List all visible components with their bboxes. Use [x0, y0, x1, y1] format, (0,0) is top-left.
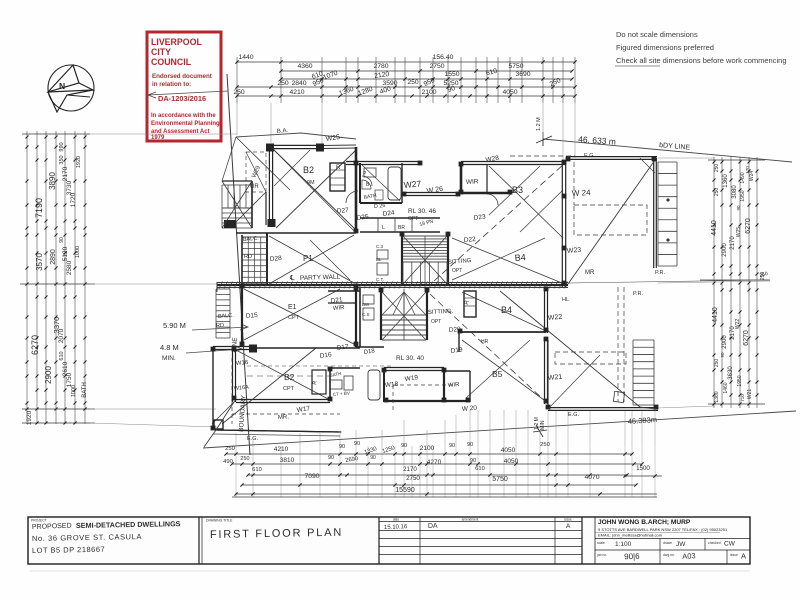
- svg-text:W24: W24: [749, 171, 755, 182]
- svg-text:1979: 1979: [151, 135, 165, 141]
- svg-text:D22: D22: [464, 236, 477, 244]
- svg-text:1460: 1460: [723, 382, 729, 393]
- svg-text:2100: 2100: [420, 445, 435, 452]
- svg-text:issue: issue: [564, 518, 572, 522]
- hip corner lower right: [640, 407, 655, 409]
- svg-text:4070: 4070: [584, 474, 599, 481]
- svg-text:250: 250: [277, 80, 289, 87]
- room B2 diagonals: [274, 150, 356, 230]
- svg-text:No. 36 GROVE ST. CASULA: No. 36 GROVE ST. CASULA: [32, 532, 142, 543]
- svg-text:FIRST FLOOR PLAN: FIRST FLOOR PLAN: [210, 527, 343, 541]
- bath fixtures upper: [364, 168, 376, 177]
- svg-text:P.R.: P.R.: [655, 270, 665, 276]
- leader arrow to boundary: [148, 91, 228, 98]
- svg-text:90: 90: [470, 458, 476, 464]
- wall balcony west upper: [241, 235, 243, 285]
- svg-text:W22: W22: [548, 314, 563, 322]
- svg-text:checked: checked: [708, 541, 721, 545]
- svg-text:1000: 1000: [75, 246, 81, 258]
- svg-text:1.2 M: 1.2 M: [536, 117, 542, 131]
- svg-text:B4: B4: [514, 252, 526, 263]
- svg-text:2070: 2070: [58, 328, 65, 343]
- svg-text:4050: 4050: [504, 458, 519, 465]
- svg-text:250: 250: [540, 442, 550, 448]
- wall D19 stub lower: [458, 332, 460, 352]
- upper deck walls: [566, 156, 657, 158]
- svg-text:JOHN WONG B.ARCH; MURP: JOHN WONG B.ARCH; MURP: [598, 519, 691, 526]
- lower deck left outline: [212, 348, 214, 430]
- wall lower B2 west: [232, 348, 234, 402]
- svg-text:in relation to:: in relation to:: [152, 81, 191, 88]
- upper dwelling long hip diagonal: [271, 147, 356, 233]
- hip corner lower left: [204, 430, 216, 447]
- svg-text:2840: 2840: [291, 80, 306, 87]
- svg-text:MIN.: MIN.: [162, 355, 176, 362]
- svg-text:3690: 3690: [515, 71, 530, 78]
- mid hall walls upper: [360, 217, 440, 219]
- WIR upper walls: [460, 165, 463, 194]
- top dimension block: [235, 57, 576, 160]
- svg-text:EMAIL: john_mellissa@hotmail.: EMAIL: john_mellissa@hotmail.com: [598, 533, 663, 538]
- svg-text:1950: 1950: [740, 190, 746, 201]
- sheet shadow line: [30, 570, 750, 572]
- svg-text:90: 90: [354, 441, 360, 447]
- svg-text:RL 30. 40: RL 30. 40: [396, 355, 424, 362]
- svg-text:MR.: MR.: [278, 414, 290, 421]
- svg-text:RD: RD: [244, 254, 252, 260]
- party wall line extension right: [568, 280, 770, 283]
- svg-text:90: 90: [736, 205, 741, 211]
- door arc upper bath: [362, 176, 372, 186]
- svg-text:CW: CW: [724, 541, 736, 548]
- svg-text:BATH: BATH: [82, 382, 88, 398]
- left dimension numbers: [26, 142, 88, 425]
- svg-text:710: 710: [740, 394, 745, 402]
- ensuite lower: [383, 369, 385, 402]
- svg-text:WIR: WIR: [448, 382, 461, 389]
- svg-text:15590: 15590: [395, 487, 415, 494]
- wall E1 south: [256, 347, 360, 349]
- svg-text:issue: issue: [730, 553, 738, 557]
- svg-text:B4: B4: [501, 305, 512, 315]
- upper bath fixtures near stairs: [377, 250, 388, 259]
- wall B4 south lower: [460, 331, 546, 333]
- svg-text:1440: 1440: [238, 54, 253, 61]
- svg-text:C.S: C.S: [362, 312, 370, 317]
- wall B2 north: [266, 144, 324, 146]
- window wall W19: [384, 367, 444, 369]
- svg-text:2750: 2750: [406, 475, 420, 482]
- north arrow compass: [48, 65, 94, 112]
- svg-text:Environmental Planning: Environmental Planning: [151, 121, 220, 127]
- upper stairs: [402, 233, 448, 285]
- door arc D23: [487, 194, 498, 205]
- upper deck diagonal: [568, 160, 655, 284]
- svg-text:LIVERPOOL: LIVERPOOL: [151, 37, 202, 47]
- svg-text:2890: 2890: [50, 249, 57, 265]
- svg-text:LOT B5 DP 218667: LOT B5 DP 218667: [32, 545, 105, 555]
- svg-text:D28: D28: [270, 255, 283, 263]
- bottom boundary line: [203, 411, 796, 448]
- wc upper: [375, 190, 383, 200]
- wall B3 east: [561, 160, 563, 287]
- svg-text:B5: B5: [492, 369, 503, 379]
- svg-text:BR: BR: [398, 225, 405, 231]
- robe and bath lower right of B2: [312, 370, 326, 394]
- left side boundary line: [227, 74, 250, 455]
- svg-text:250: 250: [714, 164, 720, 173]
- svg-text:7190: 7190: [34, 198, 44, 218]
- svg-text:90|6: 90|6: [624, 552, 640, 562]
- svg-text:B2: B2: [303, 165, 314, 175]
- svg-text:4360: 4360: [297, 63, 312, 70]
- svg-text:C.3: C.3: [376, 244, 384, 249]
- svg-text:PROJECT: PROJECT: [31, 519, 47, 523]
- svg-text:1:100: 1:100: [615, 541, 632, 548]
- wall B2 east: [355, 147, 358, 232]
- bottom dimension block: [224, 410, 662, 497]
- svg-text:CITY: CITY: [151, 47, 171, 57]
- right dimension block: [658, 157, 770, 408]
- svg-text:5750: 5750: [508, 63, 523, 70]
- svg-text:1360: 1360: [723, 174, 729, 188]
- svg-text:W22: W22: [735, 319, 741, 330]
- svg-text:6270: 6270: [743, 330, 750, 346]
- svg-text:W21: W21: [747, 389, 753, 400]
- room B3 diagonals: [489, 166, 563, 238]
- svg-text:90: 90: [401, 443, 407, 449]
- window W25: [324, 144, 356, 147]
- svg-text:4050: 4050: [502, 89, 517, 96]
- svg-text:SEMI-DETACHED DWELLINGS: SEMI-DETACHED DWELLINGS: [76, 519, 181, 530]
- svg-text:amendment: amendment: [462, 518, 479, 522]
- svg-text:DRAWING TITLE: DRAWING TITLE: [206, 519, 233, 523]
- svg-text:Check all site dimensions befo: Check all site dimensions before work co…: [616, 56, 787, 65]
- svg-text:3890: 3890: [48, 172, 57, 190]
- svg-text:E.G.: E.G.: [247, 436, 258, 442]
- svg-text:9 STOTTS AVE BARDWELL PARK NSW: 9 STOTTS AVE BARDWELL PARK NSW 2207 TEL/…: [598, 527, 728, 532]
- svg-text:90: 90: [59, 237, 65, 243]
- robe R upper: [330, 163, 345, 191]
- svg-text:BW: BW: [362, 302, 370, 307]
- fixtures lower bath: [330, 380, 342, 389]
- svg-text:RD: RD: [216, 323, 224, 329]
- upper entry porch steps: [222, 184, 252, 186]
- title block architect box: [595, 517, 750, 564]
- svg-text:7090: 7090: [304, 473, 319, 480]
- svg-text:W23: W23: [567, 247, 582, 255]
- svg-text:6270: 6270: [745, 218, 752, 234]
- svg-text:A: A: [741, 552, 746, 561]
- svg-text:W27: W27: [403, 178, 422, 190]
- wall B5 east: [544, 338, 546, 404]
- north wall over B3: [461, 161, 565, 163]
- svg-text:B3: B3: [512, 185, 523, 195]
- svg-text:2750: 2750: [429, 63, 444, 70]
- lower stairs: [381, 289, 427, 340]
- svg-text:E.G.: E.G.: [568, 412, 579, 418]
- left dimension block: [20, 131, 237, 427]
- svg-text:1550: 1550: [444, 71, 459, 78]
- svg-text:4210: 4210: [274, 446, 289, 453]
- svg-text:P.R.: P.R.: [633, 291, 643, 297]
- svg-text:4050: 4050: [501, 447, 516, 454]
- svg-text:date: date: [393, 518, 399, 522]
- svg-text:MR: MR: [585, 270, 595, 276]
- svg-text:drawn: drawn: [663, 541, 672, 545]
- svg-text:D 26: D 26: [374, 203, 386, 210]
- wall B2 south: [236, 232, 356, 234]
- svg-text:2900: 2900: [722, 335, 728, 349]
- boundary tick: [536, 132, 552, 146]
- wall P1 west: [266, 233, 268, 285]
- svg-text:PARTY WALL: PARTY WALL: [300, 274, 341, 282]
- svg-text:610: 610: [475, 466, 485, 472]
- svg-text:4410: 4410: [712, 307, 719, 323]
- bath tub upper: [388, 167, 401, 200]
- bottom dimension numbers: [223, 441, 650, 494]
- svg-text:RL 30. 46: RL 30. 46: [408, 208, 436, 215]
- underline mark: [615, 65, 660, 67]
- svg-text:JW: JW: [676, 541, 686, 548]
- svg-text:350: 350: [59, 155, 65, 164]
- svg-text:4270: 4270: [427, 459, 442, 466]
- svg-text:1720: 1720: [70, 192, 77, 207]
- svg-text:W 20: W 20: [462, 405, 478, 413]
- svg-text:2580: 2580: [66, 260, 73, 275]
- lower balcony ladder: [215, 289, 217, 338]
- svg-text:1920: 1920: [26, 410, 33, 425]
- title block frame: [28, 517, 750, 564]
- svg-text:490: 490: [223, 459, 233, 465]
- svg-text:B.A.: B.A.: [277, 128, 289, 135]
- svg-text:job no.: job no.: [596, 553, 607, 557]
- svg-text:4410: 4410: [711, 220, 718, 236]
- svg-text:2900: 2900: [722, 243, 728, 257]
- lower deck right side: [500, 291, 658, 410]
- ensuite fixtures lower left: [363, 295, 374, 304]
- svg-text:COUNCIL: COUNCIL: [151, 57, 192, 67]
- svg-text:OPT: OPT: [452, 268, 462, 274]
- diagonal across sitting B4 upper: [452, 238, 562, 283]
- svg-text:W25: W25: [736, 227, 742, 238]
- svg-text:3080: 3080: [732, 185, 738, 199]
- diagonal lower deck second: [548, 355, 600, 409]
- svg-text:90: 90: [467, 442, 473, 448]
- lower B2 diagonals: [236, 350, 330, 400]
- long dashed diagonal lower dwelling: [430, 294, 546, 402]
- svg-text:MIN: MIN: [540, 420, 546, 430]
- door arc D27: [346, 191, 358, 203]
- svg-text:DA-1203/2016: DA-1203/2016: [158, 94, 206, 103]
- svg-text:dwg no.: dwg no.: [663, 553, 675, 557]
- svg-text:250: 250: [240, 456, 249, 462]
- top boundary line bdy: [543, 139, 792, 162]
- svg-text:3590: 3590: [382, 80, 397, 87]
- svg-text:5750: 5750: [492, 476, 508, 483]
- svg-text:90: 90: [339, 444, 345, 450]
- svg-text:W 24: W 24: [572, 188, 592, 198]
- svg-text:1500: 1500: [636, 465, 650, 472]
- dashed setout lower mid: [392, 385, 394, 413]
- right dimension numbers: [711, 164, 766, 403]
- title block project box: [31, 519, 181, 555]
- svg-text:E1: E1: [288, 304, 297, 311]
- svg-text:WIR: WIR: [466, 178, 479, 186]
- wall B2 west: [268, 147, 270, 227]
- svg-text:90: 90: [449, 443, 455, 449]
- svg-text:W16: W16: [236, 360, 249, 367]
- svg-text:5120: 5120: [62, 246, 69, 261]
- svg-text:OPT: OPT: [431, 319, 441, 325]
- svg-text:156.40: 156.40: [433, 54, 454, 61]
- svg-text:6270: 6270: [30, 335, 40, 355]
- Liverpool City Council endorsement stamp: [147, 32, 221, 141]
- svg-text:D15: D15: [246, 312, 259, 320]
- svg-text:1360: 1360: [714, 391, 720, 402]
- svg-text:Do not scale dimensions: Do not scale dimensions: [616, 30, 698, 39]
- svg-text:610: 610: [252, 467, 262, 473]
- svg-text:4.8 M: 4.8 M: [160, 343, 179, 352]
- svg-text:250: 250: [407, 79, 419, 86]
- svg-text:4210: 4210: [289, 89, 304, 96]
- eave line lower: [213, 434, 340, 436]
- title block drawing title box: [206, 519, 343, 541]
- svg-text:90: 90: [370, 455, 376, 461]
- robe R lower: [464, 291, 476, 317]
- svg-text:250: 250: [714, 359, 720, 368]
- svg-text:2100: 2100: [421, 89, 436, 96]
- svg-text:1950: 1950: [737, 375, 743, 386]
- svg-text:WIR: WIR: [333, 305, 346, 312]
- svg-text:990: 990: [59, 142, 65, 151]
- svg-text:Endorsed document: Endorsed document: [152, 73, 212, 80]
- svg-text:CPT: CPT: [283, 386, 295, 392]
- svg-text:D27: D27: [337, 207, 350, 215]
- svg-text:A03: A03: [682, 551, 696, 561]
- svg-text:2170: 2170: [403, 466, 417, 473]
- svg-text:2900: 2900: [44, 366, 53, 384]
- diagonal bath upper: [362, 165, 400, 201]
- svg-text:3630: 3630: [728, 366, 734, 380]
- wall lower south mid: [388, 400, 470, 402]
- svg-text:scale: scale: [597, 541, 605, 545]
- robe walls lower near party wall: [328, 290, 360, 292]
- svg-text:In accordance with the: In accordance with the: [151, 113, 216, 119]
- wall E1 east: [355, 288, 357, 347]
- svg-text:E.G.: E.G.: [584, 153, 595, 159]
- svg-text:250: 250: [225, 446, 235, 452]
- svg-text:R: R: [336, 165, 341, 171]
- svg-text:OPT: OPT: [408, 216, 418, 222]
- dashed centreline B2 lower: [247, 375, 330, 377]
- svg-text:3570: 3570: [35, 253, 44, 271]
- upper balcony grid: [242, 237, 267, 283]
- planter dashed annex W29: [246, 152, 266, 192]
- diagonal upper left porch: [222, 181, 252, 228]
- svg-text:250: 250: [233, 89, 245, 96]
- wall lower B2 north: [213, 346, 256, 348]
- svg-text:2170: 2170: [62, 166, 69, 181]
- eave line west: [222, 137, 236, 181]
- upper deck stair ladder: [657, 162, 659, 266]
- WIR lower walls: [443, 371, 445, 402]
- walls lower mid connecting: [330, 367, 360, 369]
- svg-text:N: N: [59, 81, 65, 91]
- svg-text:PROPOSED: PROPOSED: [32, 523, 72, 531]
- svg-text:5.90 M: 5.90 M: [163, 321, 186, 330]
- window wall W27 W26: [404, 192, 460, 194]
- svg-text:90: 90: [328, 455, 334, 461]
- hip diagonal upper left: [236, 137, 290, 190]
- upper deck dashed lines: [574, 205, 647, 235]
- svg-text:DA: DA: [428, 523, 438, 530]
- svg-text:1920: 1920: [76, 156, 82, 168]
- bathroom upper walls: [346, 161, 420, 163]
- svg-text:1000: 1000: [71, 385, 77, 397]
- svg-text:W21: W21: [548, 374, 563, 382]
- lower deck dashed: [617, 287, 619, 402]
- diagonal across P1: [269, 235, 354, 284]
- svg-text:2780: 2780: [373, 63, 388, 70]
- roof eave outline upper left: [236, 133, 356, 139]
- long dashed diagonal upper dwelling: [434, 164, 564, 281]
- wall junction posts: [211, 157, 659, 431]
- svg-text:L: L: [382, 225, 385, 231]
- wall E1 west: [241, 288, 243, 347]
- svg-text:610: 610: [59, 351, 65, 360]
- svg-text:15.10.16: 15.10.16: [384, 524, 408, 531]
- svg-text:90: 90: [720, 352, 725, 358]
- wall lower B2 south: [236, 399, 330, 401]
- svg-text:Figured dimensions preferred: Figured dimensions preferred: [616, 43, 714, 52]
- title block revision table: [379, 517, 582, 564]
- window W19 wall gap: [356, 346, 384, 348]
- svg-text:3810: 3810: [280, 457, 295, 464]
- svg-text:250: 250: [714, 188, 720, 197]
- top dimension numbers: [233, 54, 562, 97]
- svg-text:℄: ℄: [289, 275, 295, 282]
- party wall: [217, 282, 568, 293]
- wall B4 east lower: [544, 288, 546, 333]
- hatch mark lower deck: [613, 391, 624, 402]
- svg-text:HL: HL: [562, 297, 569, 303]
- mid walls lower: [359, 288, 361, 347]
- svg-text:C.T.: C.T.: [376, 277, 384, 282]
- svg-text:BL: BL: [376, 257, 382, 262]
